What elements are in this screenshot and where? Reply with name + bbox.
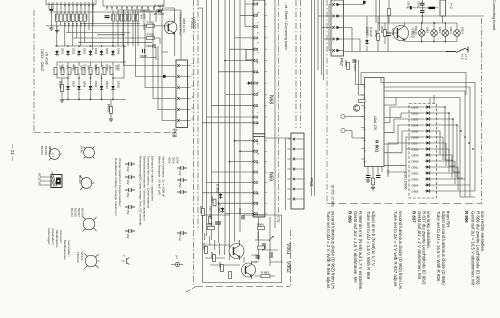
svg-text:40V: 40V [126, 180, 130, 185]
capacitor C841 polarized [49, 9, 53, 11]
svg-text:100V: 100V [176, 157, 180, 164]
svg-text:Tune set to ∆U = 2 V. With R 8: Tune set to ∆U = 2 V. With R 866 adjust [326, 211, 331, 289]
svg-text:adjust second luminous diode (: adjust second luminous diode (D 955) [441, 211, 446, 285]
svg-text:D831 - D842: D831 - D842 [40, 49, 45, 71]
connector N68-N69 body [253, 0, 265, 217]
resistor R862 [147, 24, 155, 27]
capacitor C867b [256, 256, 261, 258]
svg-text:1K3: 1K3 [80, 65, 83, 70]
transistor V802 [389, 23, 409, 42]
svg-text:1N4148: 1N4148 [369, 27, 373, 37]
svg-text:D832: D832 [71, 48, 75, 55]
wire rail diode row1 bottom [57, 61, 126, 63]
svg-text:BC238: BC238 [44, 146, 48, 155]
pot band labels [59, 65, 118, 70]
diode block dashed frame [409, 104, 437, 199]
svg-text:H 2: H 2 [449, 3, 453, 9]
svg-text:vorbehalten !: vorbehalten ! [51, 228, 55, 246]
board border mid plate left (dash-dot) [193, 0, 195, 285]
svg-text:von rechts einstellen.: von rechts einstellen. [480, 211, 485, 252]
svg-text:D836: D836 [116, 48, 120, 55]
svg-text:R825: R825 [105, 65, 109, 72]
svg-text:R803: R803 [77, 14, 81, 21]
resistor R830 pot [54, 68, 57, 75]
connector H2 box [440, 0, 446, 16]
resistor R833 pot [75, 68, 78, 75]
svg-text:V862: V862 [285, 261, 291, 273]
svg-text:R822: R822 [71, 65, 75, 72]
ground rail left [55, 31, 59, 33]
svg-text:D964: D964 [412, 184, 419, 188]
resistor R831 pot [61, 68, 64, 75]
mid plate right border (dash-dot) [290, 230, 292, 287]
capacitor C872 [376, 176, 381, 178]
svg-text:BF256: BF256 [48, 146, 52, 155]
svg-text:R812: R812 [118, 14, 122, 21]
resistor R861 [208, 227, 215, 230]
svg-text:R864: R864 [210, 196, 214, 203]
svg-text:D8311: D8311 [116, 81, 120, 89]
connector P67 pins [332, 3, 334, 5]
svg-text:BC327/25: BC327/25 [38, 173, 42, 186]
svg-text:R802: R802 [380, 26, 384, 34]
diode D834 [89, 50, 93, 56]
resistor R832 pot [68, 68, 71, 75]
wire verticals to P68 area [144, 10, 162, 60]
svg-text:D8310: D8310 [105, 81, 109, 89]
capacitor C858 [385, 33, 391, 36]
module box A pins [49, 4, 93, 9]
connector N68/N69 right stubs and numbers [265, 4, 267, 214]
svg-text:R813: R813 [126, 14, 130, 21]
svg-text:Ejemplos de valores : capacito: Ejemplos de valores : capacitores [151, 156, 155, 201]
svg-text:V861: V861 [285, 243, 291, 255]
svg-text:Connecting board: Connecting board [492, 0, 496, 30]
svg-text:63V: 63V [126, 167, 130, 172]
resistor R838 pot [110, 68, 113, 75]
connector P68 pin numbers [191, 63, 195, 120]
lamp E803 [442, 30, 449, 37]
board border left plate (dash-dot) [33, 10, 35, 133]
resistor R837 + ground [61, 85, 64, 92]
transistor V806 small [353, 105, 359, 111]
wire verticals above V802 [376, 0, 389, 31]
svg-text:D956: D956 [412, 136, 419, 140]
IC UAA170 body [365, 78, 385, 167]
junction dots row1 [56, 45, 125, 100]
svg-text:R 837: R 837 [412, 211, 417, 223]
test point circles [341, 114, 345, 132]
svg-text:D965: D965 [412, 190, 419, 194]
svg-text:— 21 —: — 21 — [10, 144, 15, 161]
resistors in block [205, 247, 208, 254]
svg-text:D839: D839 [94, 81, 98, 88]
lamp E802 [431, 30, 438, 37]
svg-text:E802: E802 [438, 27, 442, 34]
svg-text:D958: D958 [412, 148, 419, 152]
resistor R868 cluster right [258, 227, 265, 250]
diode D838 [77, 85, 81, 91]
wires into block from bus [205, 160, 270, 266]
connector P68 body [176, 60, 188, 128]
svg-text:D951: D951 [412, 106, 419, 110]
capacitor C802 cluster [420, 3, 425, 12]
resistor R836 pot [96, 68, 99, 75]
capacitor legend caps col2 [177, 166, 187, 235]
wire verticals box A to diode row [57, 4, 93, 46]
switch H1 [446, 47, 468, 53]
svg-text:D963: D963 [412, 178, 419, 182]
diode D837 [66, 85, 70, 91]
svg-text:1K: 1K [71, 23, 74, 26]
connector P67 body [331, 0, 344, 56]
svg-text:Werte-Beispiele : 63 kpF (µF): Werte-Beispiele : 63 kpF (µF) [158, 156, 162, 195]
diode D836 [111, 50, 115, 56]
wire top rail y72 [361, 73, 466, 96]
resistor R834 pot [82, 68, 85, 75]
svg-text:Exemples des valeurs : Condens: Exemples des valeurs : Condensateurs [147, 156, 151, 209]
transistor V822 [164, 14, 177, 40]
pinout circle T1 [49, 148, 62, 161]
capacitor C869 [263, 243, 265, 249]
components above block [202, 209, 205, 216]
wire bus tops to N68 [198, 4, 253, 49]
svg-text:TBA120: TBA120 [76, 252, 80, 263]
svg-text:D837: D837 [71, 81, 75, 88]
connector P63 pins [293, 138, 295, 140]
svg-text:D833: D833 [82, 48, 86, 55]
svg-text:R864: R864 [257, 223, 264, 227]
svg-text:R 869: R 869 [348, 211, 353, 223]
connector divider N68/N69 [253, 134, 265, 137]
svg-text:Charge maximum ! Carga maxima: Charge maximum ! Carga maxima ! [118, 158, 122, 207]
svg-text:...eil - Platte / Connecting b: ...eil - Platte / Connecting board [284, 2, 288, 50]
svg-text:25V: 25V [126, 210, 130, 215]
svg-text:R855: R855 [202, 243, 206, 250]
IC UAA170 right pins / wires [381, 78, 475, 166]
cap labels col2 [178, 171, 182, 242]
wire rail diode row1 top [55, 45, 126, 47]
svg-text:1K: 1K [79, 23, 82, 26]
svg-text:1N 4148: 1N 4148 [45, 52, 49, 65]
diode D841 [111, 85, 115, 91]
svg-text:2-Ty: 2-Ty [277, 216, 281, 223]
module box B (top, cut) [103, 0, 164, 6]
components below UAA170 [368, 167, 382, 179]
wire verticals box B down [113, 10, 138, 46]
pin numbers box A [63, 5, 94, 7]
svg-text:R 865: R 865 [261, 271, 269, 275]
svg-text:Modificaciones: Modificaciones [63, 240, 67, 260]
pinout circle AF86 [84, 147, 95, 159]
svg-text:(D 955 - D 966): (D 955 - D 966) [331, 185, 335, 207]
pinout circle T2 [80, 176, 95, 190]
svg-text:Belastbarkeit ! Rating ! Charg: Belastbarkeit ! Rating ! Charge maximum … [114, 158, 118, 216]
svg-text:Tune set to ∆V = 2 V with R 83: Tune set to ∆V = 2 V with R 837 adjust [393, 211, 398, 287]
svg-text:adjust at m b (N 69) to 1,7 V.: adjust at m b (N 69) to 1,7 V. [371, 211, 376, 267]
svg-text:E804: E804 [461, 27, 465, 34]
value examples column [158, 156, 166, 198]
lamp E804 [454, 30, 461, 37]
svg-text:1K: 1K [75, 23, 78, 26]
transistor V862 [242, 261, 256, 279]
svg-text:D957: D957 [412, 142, 419, 146]
connector P63 body [291, 133, 304, 209]
svg-text:second luminous diode (D 962): second luminous diode (D 962) from LH. [331, 211, 336, 290]
svg-text:second luminous diode (D 962): second luminous diode (D 962) from LH. [398, 211, 403, 290]
junction dots lamps [421, 22, 446, 42]
svg-text:D835: D835 [105, 48, 109, 55]
pin numbers box B [105, 7, 155, 10]
module box A inner ticks [49, 2, 93, 4]
svg-text:Tune set to ∆U = 16,5 V. With: Tune set to ∆U = 16,5 V. With R 806 [436, 211, 441, 282]
ground C841 [49, 28, 53, 30]
svg-text:D952: D952 [412, 112, 419, 116]
svg-text:R824: R824 [94, 65, 98, 72]
resistor R843 + ground [110, 107, 113, 114]
svg-text:V822: V822 [190, 17, 196, 29]
svg-text:63V: 63V [178, 171, 182, 176]
capacitor C861 [105, 16, 110, 18]
wires left of P67 [318, 0, 331, 80]
board border left plate bottom (dashed) [34, 132, 176, 134]
svg-text:35V: 35V [126, 193, 130, 198]
svg-text:R811: R811 [110, 14, 114, 21]
svg-text:BD136: BD136 [414, 26, 418, 35]
svg-text:R864: R864 [344, 60, 348, 67]
svg-text:Tonabnehmer-Platte: Tonabnehmer-Platte [179, 12, 183, 36]
svg-text:1K4: 1K4 [87, 65, 90, 70]
board border right edge (dash-dot) [481, 18, 483, 204]
svg-text:R 806: R 806 [464, 211, 469, 223]
package TO-126 [51, 175, 62, 188]
svg-text:R 837 die zweite Leuchtdiode (: R 837 die zweite Leuchtdiode (D 962) [421, 211, 426, 285]
wire P68 top to D843 [118, 10, 181, 60]
svg-text:Änderungen: Änderungen [47, 228, 51, 245]
svg-text:1K: 1K [83, 23, 86, 26]
svg-text:1K5: 1K5 [143, 14, 147, 19]
trimmer arrow [269, 236, 273, 241]
svg-text:µ4: µ4 [175, 256, 179, 260]
svg-text:D951-D966: D951-D966 [404, 172, 408, 189]
svg-text:N68: N68 [268, 95, 274, 104]
svg-text:AF86: AF86 [80, 146, 84, 153]
svg-text:BC635: BC635 [74, 208, 78, 217]
svg-text:16V: 16V [126, 234, 130, 239]
svg-text:D954: D954 [412, 124, 419, 128]
svg-text:1K: 1K [63, 23, 66, 26]
module box B pins [107, 6, 160, 10]
module box A (top, cut) [46, 0, 96, 4]
svg-text:D955: D955 [412, 130, 419, 134]
nest verticals [445, 107, 463, 178]
svg-text:E803: E803 [449, 27, 453, 34]
diode D833 [77, 50, 81, 56]
svg-text:Gerät auf ∆U = 1,5 V abstimmen: Gerät auf ∆U = 1,5 V abstimmen. Mit [353, 211, 358, 283]
wire vertical pair right of N69 [275, 0, 286, 228]
wires diode row2 [68, 78, 113, 100]
svg-text:reserved !: reserved ! [59, 230, 63, 244]
svg-text:SF171: SF171 [80, 252, 84, 261]
diode D839 [89, 85, 93, 91]
wire rail2 [80, 23, 140, 25]
svg-text:from RH.: from RH. [446, 211, 451, 229]
resistor R863 [147, 36, 155, 39]
wires V822 area [140, 8, 175, 60]
connector P68 pins [177, 64, 179, 66]
svg-text:R861: R861 [207, 223, 214, 227]
wires out of diode rows right [431, 83, 475, 198]
wire staircase rails [46, 26, 152, 42]
junction square m-b [163, 75, 166, 78]
svg-text:Gerät auf ∆U = 2 V abstimmen.: Gerät auf ∆U = 2 V abstimmen. Mit [417, 211, 422, 280]
wire top rail [50, 11, 162, 13]
wire rail diode row2 bottom [62, 99, 126, 101]
svg-text:E801: E801 [426, 27, 430, 34]
svg-text:Nennspannung/DC rated voltage: Nennspannung/DC rated voltage Tens. DC n… [139, 156, 143, 226]
svg-text:Modifications: Modifications [55, 230, 59, 248]
resistor R858 [377, 34, 380, 41]
svg-text:BC307: BC307 [78, 175, 82, 184]
svg-text:R826: R826 [116, 65, 120, 72]
wire top-left stubs [92, 0, 94, 50]
capacitor C864 [153, 44, 155, 48]
resistor cluster under P67 [347, 63, 350, 70]
svg-text:Tune set to ∆U = 1,5 V. With R: Tune set to ∆U = 1,5 V. With R 869 [366, 211, 371, 279]
svg-text:R823: R823 [82, 65, 86, 72]
svg-text:Elektrolytkondensatoren ! Elec: Elektrolytkondensatoren ! Electrolytic c… [143, 156, 147, 222]
svg-text:R851: R851 [199, 206, 203, 214]
connector N69 bottom double line [253, 215, 265, 217]
board border right plates (dash-dot) [295, 0, 297, 128]
svg-text:35V: 35V [178, 183, 182, 188]
resistor R871 [372, 178, 375, 185]
svg-text:P67: P67 [339, 58, 344, 67]
diode D832 [66, 50, 70, 56]
lamp labels [426, 27, 465, 34]
mid plate bottom border (dashed) [196, 286, 290, 288]
board border mid (dash-dot) [278, 0, 280, 216]
svg-text:D953: D953 [412, 118, 419, 122]
junction dots nest [444, 106, 474, 150]
wires routing to P68 [124, 10, 177, 121]
svg-text:R814: R814 [134, 14, 138, 21]
resistor R835 pot [89, 68, 92, 75]
resistor R803 vertical [388, 9, 391, 16]
svg-text:C801: C801 [407, 1, 411, 8]
svg-text:C867: C867 [252, 260, 259, 264]
svg-text:C864: C864 [146, 44, 153, 48]
capacitor C867 [215, 222, 221, 224]
value labels under row A [63, 23, 86, 26]
pinout circle T4 [85, 254, 100, 269]
capacitor C871 [366, 176, 371, 178]
svg-text:von links einstellen.: von links einstellen. [426, 211, 431, 249]
wire verticals mid-right [312, 0, 315, 196]
svg-text:BC337: BC337 [70, 208, 74, 217]
svg-text:R 862: R 862 [147, 20, 155, 24]
junction dots bus [218, 60, 241, 204]
resistor R868 [359, 100, 366, 103]
wire N69 to P63 [265, 138, 292, 199]
wires from P67 right [344, 0, 485, 95]
svg-text:D960: D960 [412, 160, 419, 164]
row component labels [60, 48, 120, 89]
bead L801 [429, 7, 436, 9]
svg-text:N69: N69 [268, 172, 274, 181]
svg-text:C803: C803 [417, 1, 421, 8]
diode D835 [100, 50, 104, 56]
capacitor C870 [270, 252, 272, 258]
svg-text:R843: R843 [107, 104, 111, 112]
svg-text:P68: P68 [171, 129, 177, 138]
diode rows D951-D966 [412, 105, 432, 193]
svg-text:BC204: BC204 [40, 146, 44, 155]
board border mid plate 2 (dash-dot) [197, 0, 199, 230]
svg-text:N 801: N 801 [375, 140, 380, 153]
small symbol diode [171, 262, 183, 266]
diode D831 [55, 50, 59, 56]
staircase wires into diode rows [388, 95, 434, 172]
svg-text:R 869 an m b (N 69) auf 1,7 V: R 869 an m b (N 69) auf 1,7 V einstellen… [358, 211, 363, 291]
svg-text:D962: D962 [412, 172, 419, 176]
transistor V861 [229, 240, 244, 260]
svg-text:Gerät auf ∆U = 16,5 V abstimme: Gerät auf ∆U = 16,5 V abstimmen. Mit [471, 211, 476, 286]
svg-text:UAA 170: UAA 170 [373, 116, 377, 130]
wires resistor row to diode row2 [57, 46, 124, 78]
wires inside block [205, 232, 278, 276]
svg-text:R821: R821 [60, 65, 64, 72]
svg-text:R 806 die zweite Leuchtdiode (: R 806 die zweite Leuchtdiode (D 955) [475, 211, 480, 285]
svg-text:D 843: D 843 [154, 4, 164, 8]
pinout circle T3 [83, 217, 97, 232]
mid plate corner dashes [186, 287, 196, 293]
svg-text:R804: R804 [85, 14, 89, 21]
svg-text:D961: D961 [412, 166, 419, 170]
svg-text:1K6: 1K6 [101, 65, 104, 70]
IC UAA170 left pins [361, 85, 365, 160]
svg-text:R864 R869: R864 R869 [209, 206, 213, 220]
resistor R865 [261, 275, 270, 278]
wire vertical bus mid [203, 0, 284, 262]
svg-text:1N 4148: 1N 4148 [154, 12, 165, 16]
svg-text:D959: D959 [412, 154, 419, 158]
svg-text:0,1µ: 0,1µ [178, 236, 182, 242]
small symbol b [122, 258, 130, 265]
svg-text:R858: R858 [374, 30, 378, 38]
tiny resistor row under box B [112, 14, 139, 21]
svg-text:D 863: D 863 [216, 184, 220, 193]
resistor R801 left of V802 [384, 30, 387, 37]
svg-text:250V: 250V [172, 157, 176, 164]
resistor R864 cluster [213, 199, 216, 206]
lamp E801 [418, 30, 425, 37]
svg-text:BC639: BC639 [81, 208, 85, 217]
board border right section (dash-dot) [326, 0, 328, 204]
capacitor legend caps col1 [125, 162, 135, 233]
jumper box at N68 pins 5-6 [246, 50, 253, 61]
junction square P67a [363, 1, 366, 4]
svg-text:BC637: BC637 [77, 208, 81, 217]
svg-text:1K: 1K [67, 23, 70, 26]
tiny resistor row under box A [56, 14, 87, 22]
svg-text:R857: R857 [218, 262, 222, 269]
svg-text:C863: C863 [353, 64, 357, 71]
capacitor legend text [139, 156, 155, 226]
svg-text:D838: D838 [82, 81, 86, 88]
svg-text:R808 1K 4%: R808 1K 4% [182, 18, 186, 33]
connector N68 pins [253, 3, 258, 125]
